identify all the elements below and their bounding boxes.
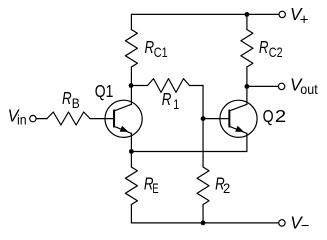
wire R_E bottom lead [130,205,132,223]
svg-text:1: 1 [173,96,179,112]
svg-text:2: 2 [275,106,286,126]
wire R2 bottom lead [202,205,204,223]
transistor Q2 [220,100,257,137]
wire R1 left lead [131,85,147,87]
svg-text:B: B [72,95,80,111]
svg-text:2: 2 [223,180,230,196]
node junction R1 / Q2 base / R2 [201,116,206,121]
terminal Vout [278,83,284,89]
svg-text:E: E [152,180,158,196]
wire Q2 emitter [246,133,248,151]
wire emitter row [131,151,247,153]
wire R1 right lead [190,85,204,87]
svg-text:Q1: Q1 [95,81,114,101]
svg-text:R: R [259,37,269,57]
node junction RC1 / R1 / Q1 collector [129,83,134,88]
wire Q1 emitter [130,133,132,151]
wire mid vertical to R2 [202,86,204,168]
svg-text:Q: Q [263,106,274,126]
wire R_C1 bottom lead [130,67,132,86]
node junction Q1 emitter / RE / emitter wire [129,149,134,154]
svg-text:+: + [300,12,309,29]
svg-text:R: R [62,88,72,108]
svg-text:out: out [300,81,317,97]
wire R_E top lead [130,152,132,168]
svg-text:C1: C1 [154,44,168,60]
transistor Q1 [105,100,142,137]
resistor RC2 [241,30,253,68]
resistor R2 [197,167,209,205]
terminal V+ [279,11,285,17]
terminal V- [279,220,285,226]
wire RB to Q1 base [90,118,114,120]
svg-text:−: − [301,218,310,235]
resistor RB [47,112,90,125]
wire Q2 collector [246,86,248,104]
node junction top rail / RC2 [245,12,250,17]
resistor RE [125,167,137,205]
wire R_C2 top lead [246,14,248,29]
resistor RC1 [125,30,137,68]
terminal Vin [30,115,36,121]
wire V- bottom rail [131,222,278,224]
svg-text:C2: C2 [269,44,283,60]
wire Vin lead [36,118,47,120]
resistor R1 [148,79,190,93]
wire Vout [247,85,279,87]
svg-text:in: in [17,112,27,128]
svg-text:R: R [162,89,172,109]
wire Q2 base [203,118,229,120]
wire V+ top rail [131,13,279,15]
wire R_C2 bottom lead [246,67,248,86]
wire R_C1 top lead [130,14,132,29]
wire Q1 collector [130,86,132,105]
node junction R2 / bottom rail [201,221,206,226]
node junction RC2 / Vout / Q2 collector [245,84,250,89]
